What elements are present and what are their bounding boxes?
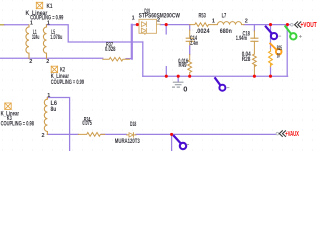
resistor R28 <box>252 54 256 76</box>
wire stub olive left <box>0 24 5 26</box>
probe V1 purple at VOUT <box>266 27 277 40</box>
K2 coupling box <box>51 66 57 72</box>
svg-text:2: 2 <box>245 19 248 25</box>
offpage connector VAUX <box>276 132 279 135</box>
svg-text:2: 2 <box>29 59 32 65</box>
wire R24 to D18 <box>101 133 126 135</box>
junction rail R28 <box>253 75 256 78</box>
wire stub below R25 <box>270 67 272 77</box>
vertical wire x287 <box>286 25 288 76</box>
svg-text:0.028: 0.028 <box>105 47 116 53</box>
junction rail x166 <box>165 75 168 78</box>
junction R25 top <box>269 23 272 26</box>
probe V2 purple on rail <box>215 78 225 91</box>
svg-text:R49: R49 <box>179 63 187 69</box>
C14 column top purple <box>189 25 191 30</box>
C18 column purple stub <box>253 25 255 31</box>
svg-text:0: 0 <box>183 84 187 93</box>
wire D19 pin2 to C14 corner <box>160 24 189 26</box>
svg-text:324u: 324u <box>32 35 40 41</box>
probe green at VOUT <box>285 26 296 39</box>
junction D19 pin1 <box>136 23 139 26</box>
wire bottom-left to L1 pin2 <box>0 57 28 59</box>
svg-text:L7: L7 <box>222 13 227 19</box>
dual diode D19 <box>137 19 160 34</box>
return rail <box>143 75 288 77</box>
K3 coupling box <box>5 103 11 109</box>
svg-text:R25: R25 <box>277 46 283 52</box>
wire L6 pin2 to R24 <box>47 133 78 135</box>
ground symbol 0 <box>177 76 179 82</box>
wire L6 pin1 right and down <box>47 98 69 152</box>
wire L1-L5 bottom <box>28 57 46 59</box>
svg-text:MURA120T3: MURA120T3 <box>115 139 140 145</box>
resistor R25 highlighted <box>269 49 273 67</box>
probe V3 purple on VAUX <box>174 136 186 149</box>
svg-text:K1: K1 <box>47 4 54 10</box>
svg-text:1: 1 <box>132 15 135 21</box>
K1 coupling box <box>36 2 42 8</box>
svg-text:1.078u: 1.078u <box>50 35 62 41</box>
junction rail R25 <box>269 75 272 78</box>
offpage connector VOUT <box>291 23 294 26</box>
probe orange on R25 <box>270 44 281 55</box>
svg-text:2: 2 <box>42 133 45 139</box>
inductor L5 <box>43 25 46 59</box>
svg-text:2: 2 <box>46 59 49 65</box>
wire vertical D19 pin1 to R37 right <box>131 25 133 59</box>
wire D19 bottom anode down <box>142 42 144 76</box>
resistor R24 <box>78 133 104 137</box>
svg-text:K_Linear: K_Linear <box>51 74 70 80</box>
resistor R53 <box>190 23 215 27</box>
svg-text:R28: R28 <box>242 57 251 63</box>
junction VOUT node <box>286 23 289 26</box>
svg-text:1: 1 <box>30 20 33 26</box>
junction D19 pin2 node <box>165 23 168 26</box>
wire L5 pin2 to R37 <box>47 57 103 59</box>
junction rail R49 <box>188 75 191 78</box>
svg-text:2.4m: 2.4m <box>190 41 198 47</box>
wire L7 to VOUT <box>244 24 290 26</box>
svg-text:COUPLING = 0.99: COUPLING = 0.99 <box>51 80 85 86</box>
inductor L7 <box>214 22 244 25</box>
svg-text:+VOUT: +VOUT <box>301 22 318 29</box>
svg-text:.0024: .0024 <box>196 29 211 35</box>
svg-text:0.075: 0.075 <box>82 121 92 127</box>
svg-text:1: 1 <box>47 20 50 26</box>
svg-text:COUPLING = 0.98: COUPLING = 0.98 <box>1 122 35 128</box>
svg-text:+VAUX: +VAUX <box>285 131 299 138</box>
wire C14 to R49 <box>189 46 191 55</box>
junction VAUX node <box>170 133 173 136</box>
svg-text:8u: 8u <box>51 107 57 113</box>
resistor R37 <box>103 57 130 61</box>
svg-text:680n: 680n <box>220 29 232 35</box>
svg-text:STPS60SM200CW: STPS60SM200CW <box>139 14 181 20</box>
wire corner to D19 pin1 <box>132 24 137 26</box>
stub below pin2 node <box>165 25 167 34</box>
stub above rail x166 <box>165 67 167 77</box>
wire L5 top to D19 pin1 net <box>47 25 143 42</box>
svg-text:1: 1 <box>212 19 215 25</box>
svg-text:R53: R53 <box>199 14 207 20</box>
wire top-left to L1 <box>5 24 29 26</box>
resistor R49 <box>188 60 192 76</box>
inductor L6 <box>44 98 47 135</box>
svg-text:10: 10 <box>277 53 280 59</box>
svg-text:1.94m: 1.94m <box>236 36 247 42</box>
wire R37 right riser to rail <box>126 58 132 60</box>
svg-text:K2: K2 <box>60 67 65 73</box>
wire stub above R25 <box>270 25 272 49</box>
wire D18 to VAUX <box>136 133 276 135</box>
diode D18 <box>127 134 136 136</box>
capacitor C14 <box>186 38 193 41</box>
svg-text:D18: D18 <box>130 122 137 128</box>
vertical below VAUX dot <box>171 134 173 151</box>
inductor L1 <box>26 25 29 59</box>
capacitor C18 <box>251 38 258 41</box>
svg-text:1: 1 <box>47 93 50 99</box>
junction rail ground <box>177 75 180 78</box>
grid dots <box>0 0 320 151</box>
